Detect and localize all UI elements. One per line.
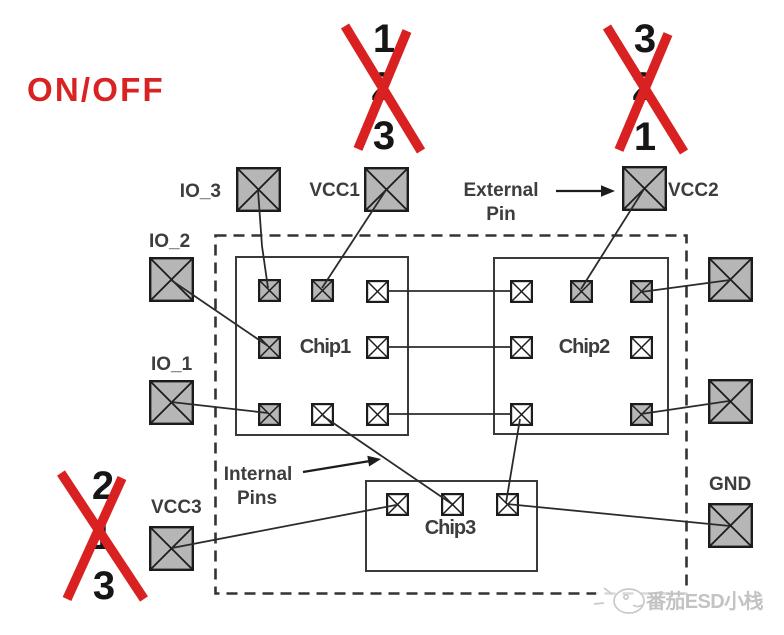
watermark icon [594, 588, 644, 613]
wire Chip1 pin5 to Chip2 pin4 [388, 346, 511, 348]
Chip3 pin3 (white) [497, 494, 518, 515]
Chip1 pin8 (white) [367, 404, 388, 425]
svg-text:GND: GND [709, 474, 751, 495]
pad VCC1 [365, 168, 408, 211]
pad IO_1 [150, 381, 193, 424]
Chip2 pin5 (white) [631, 337, 652, 358]
pin-order numbers 3,2,1 (top right) [632, 17, 656, 159]
svg-text:Internal: Internal [224, 464, 293, 485]
svg-text:VCC1: VCC1 [309, 180, 360, 201]
Chip1 pin5 (white) [367, 337, 388, 358]
svg-text:Chip2: Chip2 [559, 336, 610, 358]
Chip2 pin6 (white) [511, 404, 532, 425]
svg-text:IO_1: IO_1 [151, 354, 193, 375]
Chip2 pin4 (white) [511, 337, 532, 358]
chip U3 body [366, 481, 537, 571]
pad IO_2 [150, 258, 193, 301]
Chip2 pin7 (gray) [631, 404, 652, 425]
svg-text:1: 1 [634, 115, 656, 159]
pin-order numbers 1,2,3 (top centre) [371, 17, 395, 158]
red cross (top centre) [345, 26, 421, 151]
wire Chip2 pin6 to Chip3 pin3 [506, 419, 520, 503]
svg-text:3: 3 [373, 114, 395, 158]
svg-text:ON/OFF: ON/OFF [27, 71, 165, 108]
chip U1 body [236, 257, 408, 435]
pin-order numbers 2,1,3 (bottom left) [91, 464, 115, 608]
wire VCC3 to Chip3 pin1 [172, 505, 396, 548]
svg-text:3: 3 [93, 564, 115, 608]
arrow Internal Pins to chip pin [303, 461, 370, 472]
svg-text:IO_3: IO_3 [180, 181, 221, 202]
pad right 1 (unlabelled) [709, 258, 752, 301]
watermark backing glow [596, 586, 782, 616]
wire Chip2 pin7 to right pad 2 [641, 401, 729, 414]
wire VCC2 to Chip2 pin2 [581, 189, 644, 289]
wire Chip2 pin3 to right pad 1 [641, 280, 730, 292]
Chip1 pin3 (white) [367, 281, 388, 302]
wire Chip1 pin7 to Chip3 pin2 [323, 416, 452, 504]
svg-text:番茄ESD小栈: 番茄ESD小栈 [645, 589, 764, 613]
Chip1 pin7 (white) [312, 404, 333, 425]
Chip2 pin3 (gray) [631, 281, 652, 302]
Chip3 pin1 (white) [387, 494, 408, 515]
svg-text:External: External [464, 180, 539, 201]
wire Chip3 pin3 to GND [507, 504, 730, 526]
Chip1 pin4 (gray) [259, 337, 280, 358]
Chip2 pin2 (gray) [571, 281, 592, 302]
svg-text:Chip1: Chip1 [300, 336, 351, 358]
svg-text:1: 1 [373, 17, 395, 61]
svg-text:VCC2: VCC2 [668, 180, 719, 201]
svg-text:3: 3 [634, 17, 656, 61]
red cross (top right) [607, 27, 684, 152]
svg-text:Pin: Pin [486, 204, 516, 225]
pad VCC3 [150, 527, 193, 570]
arrow External Pin to VCC2 [556, 190, 603, 192]
svg-text:VCC3: VCC3 [151, 497, 202, 518]
pad right 2 (unlabelled) [709, 380, 752, 423]
wire IO_2 to Chip1 pin4 [171, 280, 268, 346]
pad VCC2 [623, 167, 666, 210]
wire IO_1 to Chip1 pin6 [171, 402, 268, 413]
Chip1 pin1 (gray) [259, 280, 280, 301]
pad IO_3 [237, 168, 280, 211]
Chip1 pin2 (gray) [312, 280, 333, 301]
pad GND [709, 504, 752, 547]
Chip3 pin2 (white) [442, 494, 463, 515]
chip U2 body [494, 258, 668, 434]
svg-text:Pins: Pins [237, 488, 277, 509]
wire Chip1 pin3 to Chip2 pin1 [388, 290, 511, 292]
Chip1 pin6 (gray) [259, 404, 280, 425]
svg-text:IO_2: IO_2 [149, 231, 190, 252]
wire IO_3 to Chip1 pin1 [258, 190, 268, 288]
Chip2 pin1 (white) [511, 281, 532, 302]
board outline (dashed) [216, 236, 687, 594]
red cross (bottom left) [61, 473, 144, 599]
wire VCC1 to Chip1 pin2 [322, 190, 386, 288]
svg-text:Chip3: Chip3 [425, 517, 476, 539]
wire Chip1 pin8 to Chip2 pin6 [388, 413, 511, 415]
